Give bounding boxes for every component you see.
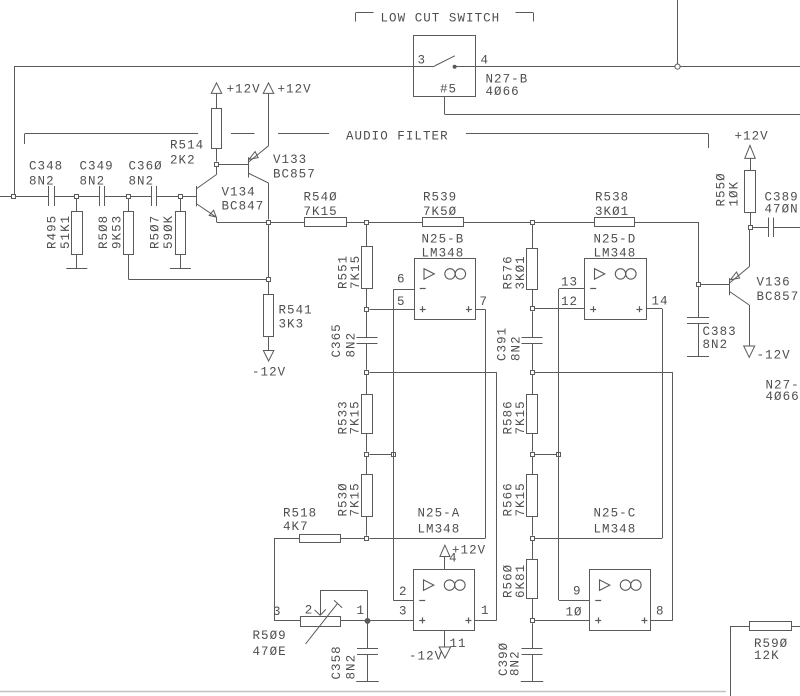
svg-text:C348: C348 (29, 160, 63, 174)
wire: R514 bottom to node (216, 149, 218, 162)
switch lever and contact inside N27-B (414, 66, 435, 68)
svg-text:BC857: BC857 (757, 290, 800, 304)
svg-text:R541: R541 (279, 304, 313, 318)
pot wiper arrow (320, 591, 322, 616)
node: junction at left edge (12, 195, 16, 199)
wire (157, 196, 196, 198)
wire: mid tap (534, 454, 559, 456)
resistor R530 7K15 (366, 456, 368, 475)
svg-text:R518: R518 (283, 507, 317, 521)
svg-text:8N2: 8N2 (129, 175, 155, 189)
wire: pin 7 output down (476, 309, 486, 311)
svg-text:4: 4 (449, 552, 458, 566)
wire (532, 598, 534, 618)
node: R533/R530 mid (365, 453, 369, 457)
wire: N25-D pin13 feedback vertical (558, 289, 560, 600)
wire: pin 12 line (534, 308, 584, 310)
wire: R551 to pin5 node (366, 289, 368, 307)
svg-text:R5Ø8: R5Ø8 (97, 215, 111, 249)
svg-text:R514: R514 (170, 139, 204, 153)
svg-text:AUDIO FILTER: AUDIO FILTER (346, 130, 449, 144)
V133 collector to output wire (248, 173, 269, 183)
svg-text:R5Ø9: R5Ø9 (253, 629, 287, 643)
svg-text:+12V: +12V (227, 83, 261, 97)
resistor R566 7K15 (532, 456, 534, 475)
svg-text:N25-B: N25-B (422, 233, 465, 247)
+12V arrow at N25-A pin 4 (444, 556, 446, 569)
svg-text:3K3: 3K3 (279, 318, 305, 332)
resistor R518 4K7 (300, 535, 341, 543)
node: pin5/C365 (365, 308, 369, 312)
wire: R538 to V136 branch (635, 222, 698, 224)
resistor R540 7K15 (305, 218, 347, 227)
svg-text:R5Ø7: R5Ø7 (149, 215, 163, 249)
svg-text:7: 7 (480, 295, 489, 309)
ground bar below C390 (521, 681, 544, 683)
node: R566/R560/pin14 feedback (531, 537, 535, 541)
node: junction C360/R507/V134 base (179, 195, 183, 199)
+12V arrow for R514 (211, 83, 222, 94)
svg-text:8N2: 8N2 (703, 338, 729, 352)
wire (750, 212, 752, 225)
svg-text:R495: R495 (45, 215, 59, 249)
capacitor C365 8N2 (366, 312, 368, 338)
op-amp N25-A (LM348) box (414, 570, 475, 631)
svg-text:2K2: 2K2 (170, 154, 196, 168)
svg-text:6K81: 6K81 (514, 564, 528, 598)
wire: pin 13 stub (559, 288, 585, 290)
svg-text:9: 9 (573, 585, 582, 599)
svg-text:7K5Ø: 7K5Ø (423, 205, 457, 219)
node: pin12/C391 (531, 307, 535, 311)
wire (532, 290, 534, 307)
wire: pin 1 output (475, 620, 496, 622)
svg-text:-12V: -12V (757, 349, 791, 363)
resistor R533 7K15 (366, 375, 368, 395)
wire: pin 10 line (534, 620, 589, 622)
wire (532, 517, 534, 536)
wire (532, 434, 534, 452)
capacitor C390 8N2 (532, 623, 534, 649)
wire: mid tap to feedback line (369, 454, 393, 456)
svg-text:V133: V133 (273, 153, 307, 167)
node: C391 bottom / output feedback (531, 371, 535, 375)
node: pin10/C390 (531, 619, 535, 623)
wire: input signal line y=196 (0, 196, 49, 198)
resistor R560 6K81 (532, 540, 534, 559)
capacitor C383 8N2 (687, 317, 709, 319)
svg-text:LOW CUT SWITCH: LOW CUT SWITCH (381, 12, 501, 26)
svg-text:1: 1 (481, 604, 490, 618)
svg-text:7K15: 7K15 (514, 482, 528, 516)
svg-text:C349: C349 (80, 160, 114, 174)
svg-text:4: 4 (481, 54, 490, 68)
svg-text:4Ø66: 4Ø66 (486, 85, 520, 99)
svg-text:3: 3 (273, 605, 282, 619)
svg-text:8N2: 8N2 (80, 175, 106, 189)
resistor R539 7K50 (423, 218, 464, 227)
op-amp N25-D (LM348) box (585, 259, 647, 320)
svg-text:LM348: LM348 (418, 523, 461, 537)
svg-text:4K7: 4K7 (283, 520, 309, 534)
node: junction C348/R495 (75, 195, 79, 199)
wire: vertical drop at far left (14, 66, 16, 196)
wire: R518 left lead down to pot pin 3 (274, 538, 300, 540)
wire: pot output to N25-A pin 3 (341, 620, 414, 622)
svg-text:5: 5 (397, 295, 406, 309)
svg-text:8N2: 8N2 (344, 654, 358, 680)
wire (105, 196, 152, 198)
svg-text:51K1: 51K1 (59, 215, 73, 249)
-12V arrow below R541 (268, 337, 270, 351)
resistor R551 7K15 (366, 224, 368, 247)
op-amp N25-B (LM348) box (415, 259, 476, 320)
svg-text:N25-C: N25-C (594, 507, 637, 521)
wire: pin7 feedback horizontal (369, 538, 485, 540)
capacitor C391 8N2 (532, 311, 534, 337)
node: R508 wire joins R541 line (267, 278, 271, 282)
analog switch N27-B 4066 box (414, 36, 476, 97)
op-amp N25-C (LM348) box (590, 570, 651, 631)
wire (346, 222, 423, 224)
ground below R507 (180, 254, 182, 269)
wire (366, 517, 368, 536)
wire (366, 434, 368, 452)
svg-text:V136: V136 (757, 276, 791, 290)
svg-text:BC847: BC847 (222, 200, 265, 214)
svg-text:-12V: -12V (252, 366, 286, 380)
node: junction on top net at x=677 (675, 64, 680, 69)
svg-text:12: 12 (561, 295, 578, 309)
svg-text:13: 13 (561, 276, 578, 290)
node: R538/R576 (531, 221, 535, 225)
faint page border line at bottom (0, 691, 726, 693)
svg-text:C391: C391 (495, 327, 509, 361)
node: R540/R539/R551 (365, 221, 369, 225)
node: R530/R518/pin7 feedback (365, 537, 369, 541)
node: junction C349/R508 (127, 195, 131, 199)
svg-text:#5: #5 (440, 83, 457, 97)
svg-text:R55Ø: R55Ø (714, 172, 728, 206)
wire (464, 222, 596, 224)
resistor R514 2K2 (216, 93, 218, 108)
resistor R495 51K1 (76, 198, 78, 212)
svg-text:8N2: 8N2 (344, 332, 358, 358)
svg-text:59ØK: 59ØK (162, 215, 176, 249)
svg-text:8N2: 8N2 (510, 335, 524, 361)
svg-text:14: 14 (652, 295, 669, 309)
wire: pin #5 lead down and right to edge (444, 97, 446, 114)
resistor R576 3K01 (532, 224, 534, 248)
node: pot/C358/pin3 (365, 618, 370, 623)
wire: emitter bus y=222 (217, 222, 305, 224)
svg-text:7K15: 7K15 (349, 400, 363, 434)
capacitor C360 8N2 (151, 186, 153, 206)
svg-text:4Ø66: 4Ø66 (766, 390, 800, 404)
wire: pin 6 stub (393, 289, 414, 291)
svg-text:3: 3 (418, 54, 427, 68)
wire: pin 8 output (651, 620, 673, 622)
capacitor C389 470N (752, 227, 768, 229)
resistor R541 3K3 (268, 224, 270, 295)
potentiometer R509 470E (274, 620, 300, 622)
ground below R495 (76, 254, 78, 269)
svg-text:R54Ø: R54Ø (304, 191, 338, 205)
-12V arrow at N25-A pin 11 (444, 631, 446, 647)
transistor V133 BC857 (PNP) (248, 157, 250, 177)
svg-text:8N2: 8N2 (29, 175, 55, 189)
svg-text:V134: V134 (222, 186, 256, 200)
svg-text:N25-A: N25-A (418, 507, 461, 521)
svg-text:2: 2 (399, 585, 408, 599)
node: mid tap on feedback vertical (557, 453, 561, 457)
svg-text:9K53: 9K53 (110, 215, 124, 249)
V136 collector down to -12V (730, 292, 750, 306)
pot adjustment diagonal with T-bar (306, 603, 338, 644)
svg-text:2: 2 (305, 604, 314, 618)
ground bar below C383 (687, 356, 709, 358)
wire: pin14 feedback horizontal (534, 538, 662, 540)
svg-text:C365: C365 (330, 323, 344, 357)
capacitor C348 8N2 (48, 186, 50, 206)
node: R514/V133 base/V134 collector (215, 163, 219, 167)
svg-text:-12V: -12V (409, 650, 443, 664)
wire: pin 5 line (369, 309, 414, 311)
svg-text:3KØ1: 3KØ1 (514, 255, 528, 289)
resistor R508 9K53 (128, 198, 130, 212)
svg-text:3KØ1: 3KØ1 (595, 205, 629, 219)
+12V arrow for V133 emitter (268, 93, 270, 145)
capacitor C358 8N2 (367, 623, 369, 649)
wire: wiper loop to pin 1 node (320, 590, 368, 592)
AUDIO FILTER title bracket (25, 133, 198, 135)
node: V133 collector / R541 top (267, 221, 271, 225)
wire: to output riser (369, 372, 496, 374)
wire: top horizontal net (switch pins 3/4) (15, 66, 414, 68)
node: R550/C389/V136 emitter (749, 226, 753, 230)
resistor R507 590K (180, 198, 182, 212)
svg-text:LM348: LM348 (594, 523, 637, 537)
wire: vertical stub to top edge at x=677 (677, 0, 679, 66)
svg-text:N25-D: N25-D (594, 233, 637, 247)
svg-text:C358: C358 (330, 645, 344, 679)
resistor R538 3K01 (595, 218, 635, 227)
wire: pin 9 stub (559, 600, 590, 602)
node: mid tap on feedback vertical (392, 453, 396, 457)
svg-text:8N2: 8N2 (509, 650, 523, 676)
svg-text:1: 1 (357, 604, 366, 618)
resistor R590 12K (730, 626, 750, 628)
svg-text:47ØE: 47ØE (253, 645, 287, 659)
svg-text:1ØK: 1ØK (727, 181, 741, 207)
svg-text:C383: C383 (703, 325, 737, 339)
svg-text:12K: 12K (754, 649, 780, 663)
LOW CUT SWITCH title bracket (356, 12, 374, 14)
svg-text:11: 11 (450, 637, 467, 651)
svg-text:R538: R538 (595, 191, 629, 205)
svg-text:7K15: 7K15 (304, 205, 338, 219)
resistor R586 7K15 (532, 375, 534, 395)
svg-text:1Ø: 1Ø (566, 606, 583, 620)
svg-text:8: 8 (656, 605, 665, 619)
svg-text:3: 3 (399, 605, 408, 619)
transistor V134 BC847 (NPN) (196, 186, 198, 206)
svg-text:6: 6 (397, 273, 406, 287)
resistor R550 10K (745, 171, 756, 213)
node: C365 bottom / output feedback (365, 371, 369, 375)
wire: R508 bottom to R541 node (128, 254, 130, 280)
svg-text:+12V: +12V (735, 130, 769, 144)
svg-text:BC857: BC857 (273, 168, 316, 182)
node: V136 base / C383 (697, 283, 701, 287)
svg-text:47ØN: 47ØN (765, 203, 799, 217)
capacitor C349 8N2 (99, 186, 101, 206)
ground bar below C358 (356, 681, 379, 683)
wire: N25-B pin6 feedback vertical (393, 289, 395, 600)
node: R586/R566 mid (531, 453, 535, 457)
wire: pin 14 output down (647, 308, 663, 310)
wire: base of V133 (219, 164, 248, 166)
svg-text:7K15: 7K15 (514, 400, 528, 434)
svg-text:7K15: 7K15 (349, 482, 363, 516)
wire: pin 2 stub (393, 600, 413, 602)
svg-text:C36Ø: C36Ø (129, 160, 163, 174)
svg-text:7K15: 7K15 (349, 255, 363, 289)
wire: to output riser (534, 372, 672, 374)
svg-text:+12V: +12V (278, 83, 312, 97)
wire: R518 right lead (341, 538, 365, 540)
svg-text:R539: R539 (423, 191, 457, 205)
wire (54, 196, 100, 198)
